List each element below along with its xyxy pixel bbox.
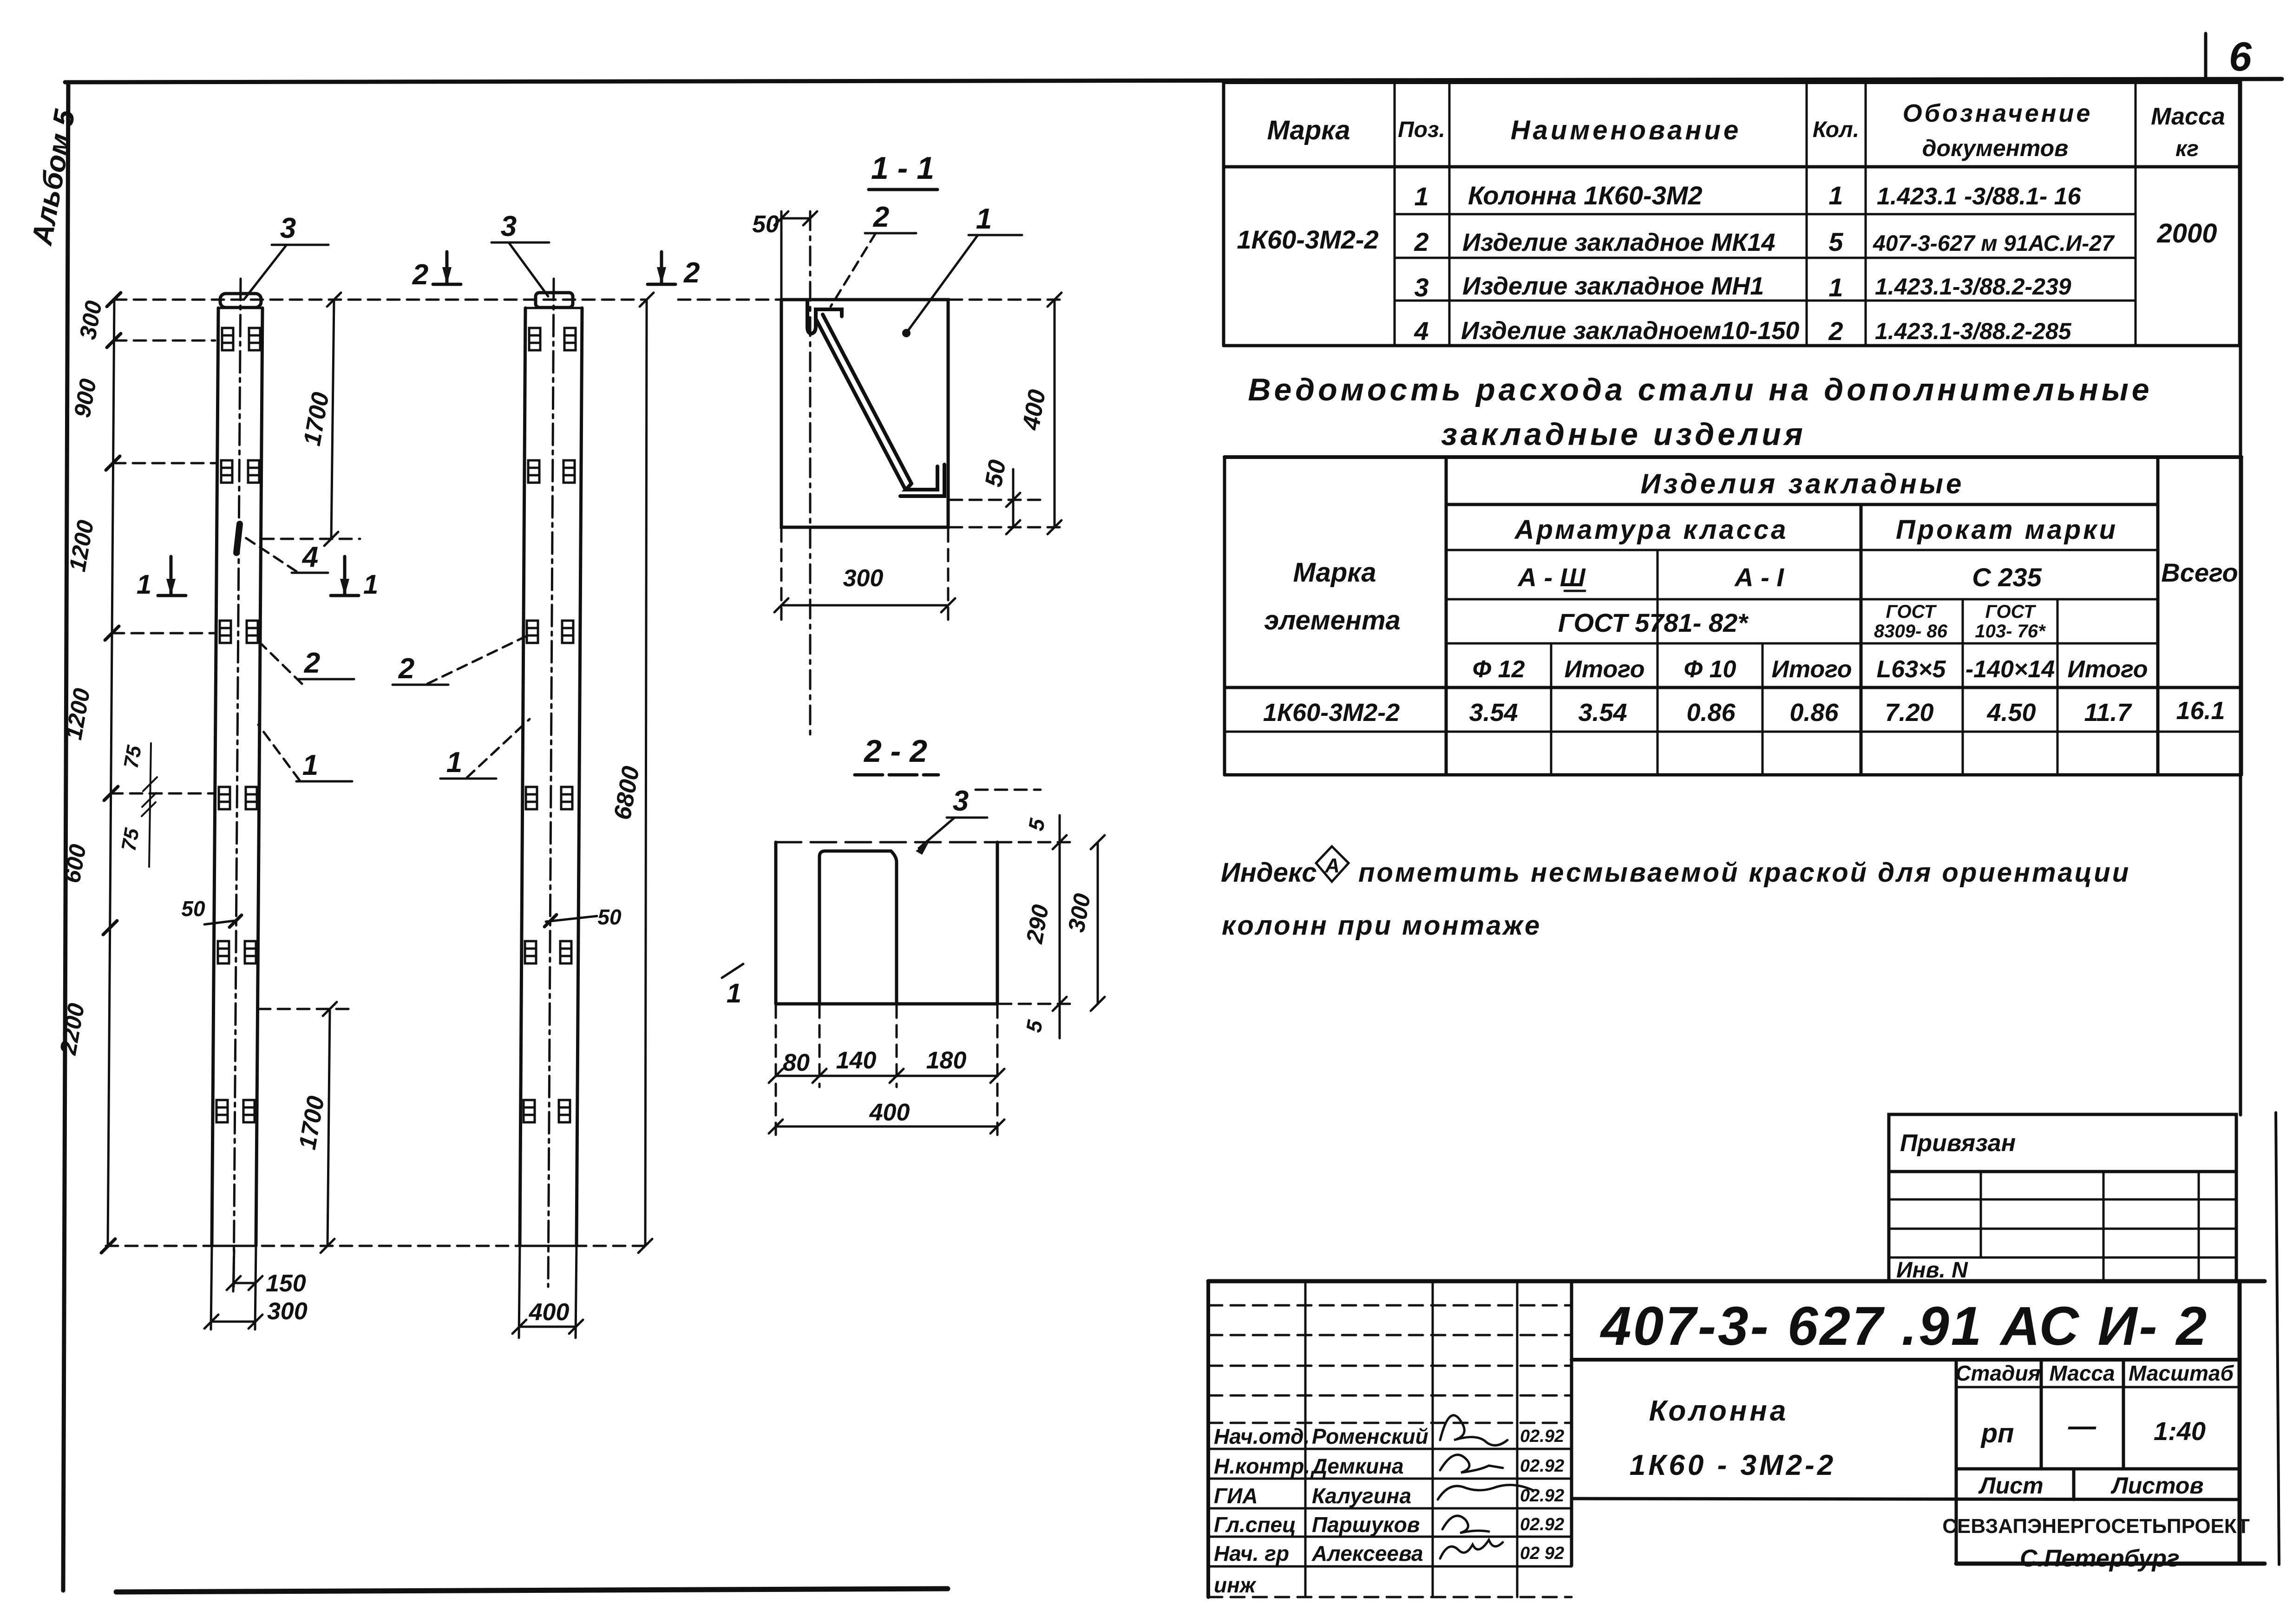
svg-text:11.7: 11.7 (2084, 699, 2132, 727)
svg-text:103- 76*: 103- 76* (1975, 621, 2046, 642)
svg-text:Ведомость расхода стали на: Ведомость расхода стали на дополнительны… (1248, 372, 2152, 407)
svg-text:ГИА: ГИА (1214, 1484, 1258, 1508)
DIM 1700 (upper, right of col1) (262, 293, 360, 546)
svg-text:1: 1 (976, 203, 992, 235)
svg-text:Арматура класса: Арматура класса (1514, 515, 1789, 545)
svg-text:Колонна 1К60-3М2: Колонна 1К60-3М2 (1468, 181, 1703, 210)
svg-text:5: 5 (1023, 816, 1049, 833)
svg-text:4: 4 (301, 541, 318, 573)
svg-text:Н.контр.: Н.контр. (1214, 1454, 1310, 1478)
COL2 BOTTOM DIM 400 (512, 1246, 583, 1338)
svg-text:Итого: Итого (1565, 656, 1645, 683)
SECTION 2-2 LABEL 1 (722, 964, 743, 1008)
svg-text:1.423.1-3/88.2-285: 1.423.1-3/88.2-285 (1875, 318, 2072, 344)
svg-text:3: 3 (953, 785, 969, 817)
svg-text:80: 80 (783, 1049, 810, 1076)
SECTION 1-1 EXT DASH LEFT (678, 299, 781, 301)
TITLE BLOCK NAME (1630, 1395, 1836, 1481)
svg-text:3: 3 (501, 210, 517, 242)
LABEL 2 (col1) (255, 637, 354, 684)
svg-text:Наименование: Наименование (1511, 115, 1741, 145)
svg-text:1.423.1 -3/88.1- 16: 1.423.1 -3/88.1- 16 (1877, 183, 2082, 210)
GROUND DASHED LINE (106, 1245, 647, 1247)
VEDOMOST TITLE (1248, 372, 2152, 452)
svg-text:140: 140 (836, 1047, 877, 1074)
DIM 50 (col1) (181, 897, 242, 927)
SECTION 2-2 BOTTOM DIMS 80/140/180/400 (769, 1006, 1004, 1140)
svg-text:Марка: Марка (1267, 115, 1350, 145)
COLUMN 1 TOP CAP (item 3) (220, 294, 261, 308)
svg-text:50: 50 (752, 211, 779, 238)
svg-text:02.92: 02.92 (1520, 1427, 1564, 1446)
svg-text:Поз.: Поз. (1398, 118, 1445, 142)
svg-text:1: 1 (446, 747, 462, 779)
svg-text:С 235: С 235 (1972, 563, 2042, 592)
COLUMN 2 EMBED MARKS (524, 328, 576, 1122)
TOP EXTENSION DASHED LINE (114, 299, 647, 301)
SECTION 1-1 DIM 50 TOP (752, 211, 817, 297)
svg-text:7.20: 7.20 (1885, 699, 1933, 727)
COLUMN 2 CENTERLINE (548, 279, 554, 1287)
svg-text:4: 4 (1414, 316, 1428, 346)
svg-text:300: 300 (1063, 891, 1095, 934)
COLUMN 1 CENTERLINE (234, 279, 241, 1287)
svg-text:02 92: 02 92 (1520, 1544, 1564, 1563)
svg-text:пометить несмываемой краской: пометить несмываемой краской для ориента… (1358, 858, 2130, 888)
SECTION 2-2 PLATE OUTLINE (776, 842, 997, 1004)
svg-text:1К60-3М2-2: 1К60-3М2-2 (1263, 699, 1400, 727)
DIM 75 SUB-CHAIN (117, 743, 157, 867)
svg-text:4.50: 4.50 (1986, 699, 2036, 727)
SECTION 2-2 TITLE (855, 733, 938, 775)
svg-text:1: 1 (727, 978, 741, 1008)
COLUMN 2 BODY (520, 308, 582, 1246)
svg-text:400: 400 (529, 1299, 570, 1326)
SECTION 1-1 DIM 300 BOTTOM (774, 530, 955, 620)
svg-text:Марка: Марка (1293, 557, 1376, 588)
svg-text:2: 2 (398, 653, 414, 685)
svg-text:5: 5 (1021, 1018, 1047, 1035)
SECTION 1-1 PLATE CENTER DASH (809, 211, 812, 739)
svg-text:1: 1 (1828, 273, 1843, 302)
SIGNATURE ROWS TEXT (1214, 1424, 1564, 1597)
svg-text:L63×5: L63×5 (1877, 656, 1946, 683)
svg-text:Паршуков: Паршуков (1312, 1513, 1420, 1537)
svg-text:Масса: Масса (2151, 103, 2225, 130)
svg-text:Масштаб: Масштаб (2129, 1361, 2234, 1385)
svg-text:2: 2 (1414, 227, 1428, 256)
LEFT DIMENSION CHAIN (55, 293, 121, 1253)
svg-text:2: 2 (683, 257, 700, 289)
svg-text:С.Петербург: С.Петербург (2020, 1545, 2180, 1572)
TABLE 1 TEXT (1237, 99, 2225, 346)
svg-text:Листов: Листов (2110, 1473, 2203, 1499)
LABEL 3 (col2) (491, 210, 549, 296)
svg-text:600: 600 (59, 842, 91, 885)
svg-text:Лист: Лист (1978, 1473, 2043, 1499)
ALBUM LABEL (26, 106, 81, 248)
svg-text:1К60 - 3М2-2: 1К60 - 3М2-2 (1630, 1449, 1836, 1481)
SECTION 1-1 DIM 50 LOWER RIGHT (950, 458, 1041, 534)
svg-text:-140×14: -140×14 (1965, 656, 2055, 683)
svg-text:1.423.1-3/88.2-239: 1.423.1-3/88.2-239 (1875, 274, 2071, 300)
svg-text:1: 1 (363, 570, 378, 600)
svg-text:инж: инж (1214, 1573, 1257, 1597)
COLUMN 1 EMBED MARKS (item 2 plates) (216, 328, 260, 1122)
CHAIN EXTENSION LINES (111, 341, 215, 793)
svg-text:6800: 6800 (609, 764, 645, 822)
svg-text:ГОСТ: ГОСТ (1886, 602, 1938, 622)
svg-text:Гл.спец: Гл.спец (1214, 1513, 1296, 1537)
SIGNATURE TABLE (1208, 1281, 1572, 1597)
svg-text:75: 75 (117, 826, 144, 853)
svg-text:1: 1 (1414, 182, 1428, 211)
svg-text:Стадия: Стадия (1955, 1361, 2040, 1385)
svg-text:300: 300 (843, 565, 884, 592)
svg-text:Итого: Итого (1772, 656, 1852, 683)
svg-text:1 - 1: 1 - 1 (871, 151, 934, 186)
SECTION 1-1 LABEL 1 (902, 203, 1022, 337)
SECTION 2-2 LABEL 3 (916, 785, 1041, 855)
SECTION MARK 2 (right of col2) (648, 252, 700, 289)
svg-text:407-3-627 м 91АС.И-27: 407-3-627 м 91АС.И-27 (1873, 231, 2115, 256)
svg-text:1: 1 (137, 570, 151, 600)
svg-text:1700: 1700 (294, 1094, 330, 1152)
SECTION 2-2 CHANNEL (item 3) (819, 851, 897, 1004)
svg-text:ГОСТ: ГОСТ (1985, 602, 2037, 622)
LABEL 1 (col2) (440, 719, 530, 779)
svg-text:1К60-3М2-2: 1К60-3М2-2 (1237, 225, 1378, 254)
svg-text:рп: рп (1980, 1418, 2014, 1448)
PAGE NUMBER 6 (2206, 33, 2252, 80)
svg-text:75: 75 (119, 744, 146, 770)
svg-text:407-3- 627 .91 АС И- 2: 407-3- 627 .91 АС И- 2 (1600, 1296, 2208, 1357)
svg-text:Обозначение: Обозначение (1903, 99, 2093, 127)
svg-text:3: 3 (280, 212, 296, 244)
svg-text:02.92: 02.92 (1520, 1456, 1564, 1476)
SMALL TABLE (Привязан / Инв.N) (1889, 1114, 2236, 1283)
TABLE 1 PARTS LIST GRID (1224, 82, 2240, 346)
DIM 1700 (lower, right of col1) (258, 1002, 353, 1253)
svg-text:Инв. N: Инв. N (1896, 1258, 1968, 1283)
svg-text:1: 1 (1828, 181, 1843, 210)
ITEM 4 MARK (black tick on centerline) (236, 524, 240, 553)
svg-text:закладные изделия: закладные изделия (1441, 417, 1806, 452)
svg-text:Нач. гр: Нач. гр (1214, 1541, 1289, 1565)
svg-text:Калугина: Калугина (1312, 1484, 1411, 1508)
svg-text:1200: 1200 (64, 518, 98, 573)
svg-text:3.54: 3.54 (1469, 699, 1518, 727)
TABLE 2 STEEL GRID (1225, 457, 2241, 775)
svg-text:1:40: 1:40 (2154, 1416, 2206, 1446)
svg-text:290: 290 (1021, 903, 1054, 946)
svg-text:0.86: 0.86 (1789, 699, 1839, 727)
svg-text:Изделие закладное МК14: Изделие закладное МК14 (1462, 229, 1775, 256)
SECTION MARK 2 (left of col2) (412, 252, 461, 291)
svg-text:16.1: 16.1 (2176, 697, 2225, 725)
svg-text:Изделие закладноем10-150: Изделие закладноем10-150 (1461, 317, 1799, 345)
NOTE DIAMOND A (1316, 846, 1349, 882)
LABEL 1 (col1) (258, 725, 352, 781)
svg-text:Масса: Масса (2049, 1361, 2115, 1385)
svg-text:3: 3 (1414, 273, 1428, 302)
svg-text:—: — (2068, 1410, 2096, 1441)
svg-text:Изделия закладные: Изделия закладные (1641, 468, 1965, 499)
svg-text:50: 50 (980, 458, 1011, 489)
DIM 6800 (609, 293, 654, 1253)
svg-text:300: 300 (267, 1298, 308, 1325)
svg-text:ГОСТ 5781- 82*: ГОСТ 5781- 82* (1558, 608, 1749, 637)
TABLE 2 TEXT (1263, 468, 2238, 727)
SECTION 1-1 EMBED PLATE (item 2, Z-brace) (807, 301, 944, 496)
svg-text:Изделие закладное МН1: Изделие закладное МН1 (1462, 272, 1764, 300)
svg-text:300: 300 (74, 299, 107, 341)
svg-text:5: 5 (1828, 227, 1843, 256)
SECTION 1-1 TITLE (869, 151, 937, 190)
SECTION 2-2 RIGHT DIM 300 (1063, 835, 1105, 1011)
svg-text:0.86: 0.86 (1686, 699, 1736, 727)
svg-text:6: 6 (2229, 33, 2252, 79)
svg-text:Колонна: Колонна (1649, 1395, 1789, 1427)
LABEL 2 (col2) (393, 635, 528, 685)
svg-text:Привязан: Привязан (1900, 1130, 2016, 1157)
svg-text:СЕВЗАПЭНЕРГОСЕТЬПРОЕКТ: СЕВЗАПЭНЕРГОСЕТЬПРОЕКТ (1942, 1515, 2250, 1538)
svg-text:Всего: Всего (2161, 558, 2238, 587)
svg-text:Индекс: Индекс (1221, 858, 1317, 888)
svg-text:2 - 2: 2 - 2 (863, 733, 927, 769)
SIGNATURE SQUIGGLES (1438, 1415, 1533, 1559)
svg-text:Итого: Итого (2068, 656, 2148, 683)
svg-text:Прокат марки: Прокат марки (1896, 515, 2118, 545)
svg-text:Альбом 5: Альбом 5 (26, 106, 81, 248)
svg-text:2000: 2000 (2156, 218, 2217, 249)
svg-text:Кол.: Кол. (1813, 118, 1859, 142)
svg-text:150: 150 (266, 1270, 306, 1297)
svg-text:А - I: А - I (1734, 563, 1784, 592)
svg-text:02.92: 02.92 (1520, 1515, 1564, 1534)
svg-text:А - Ш: А - Ш (1517, 563, 1585, 592)
svg-text:2: 2 (412, 259, 428, 291)
COL1 BOTTOM DIMS 150 / 300 (204, 1246, 308, 1329)
SECTION 1-1 CONCRETE OUTLINE (781, 300, 948, 527)
svg-text:50: 50 (597, 905, 622, 929)
svg-text:8309- 86: 8309- 86 (1874, 621, 1948, 642)
SECTION 1-1 DIM 400 (950, 293, 1066, 534)
COLUMN 2 TOP CAP (item 3) (536, 293, 573, 308)
svg-text:2: 2 (873, 201, 889, 233)
svg-text:Нач.отд.: Нач.отд. (1214, 1424, 1310, 1448)
svg-text:элемента: элемента (1264, 605, 1401, 635)
svg-text:3.54: 3.54 (1578, 699, 1627, 727)
svg-text:1700: 1700 (299, 390, 334, 448)
svg-text:Роменский: Роменский (1312, 1424, 1428, 1448)
svg-text:180: 180 (926, 1047, 967, 1074)
svg-text:документов: документов (1922, 135, 2069, 161)
svg-text:2: 2 (304, 647, 320, 679)
LABEL 4 (242, 535, 328, 573)
LABEL 3 (col1) (244, 212, 328, 300)
svg-text:кг: кг (2175, 137, 2199, 161)
svg-text:400: 400 (869, 1099, 910, 1126)
DIM 50 (col2) (544, 905, 622, 929)
SECTION MARK 1 (left) (137, 557, 186, 600)
svg-text:900: 900 (69, 377, 101, 419)
svg-text:Ф 10: Ф 10 (1684, 656, 1736, 683)
svg-text:Ф 12: Ф 12 (1473, 656, 1525, 683)
NOTE TEXT (1221, 858, 2130, 941)
SECTION 1-1 LABEL 2 (831, 201, 916, 307)
svg-text:колонн при монтаже: колонн при монтаже (1222, 910, 1541, 941)
svg-text:Алексеева: Алексеева (1311, 1541, 1423, 1565)
SECTION MARK 1 (right) (331, 557, 378, 600)
TITLE BLOCK GRID (1208, 1281, 2265, 1597)
svg-text:50: 50 (181, 897, 205, 921)
svg-text:400: 400 (1017, 387, 1051, 432)
COLUMN 1 BODY (212, 308, 262, 1246)
SECTION 2-2 RIGHT DIMS 5/290/5 (999, 815, 1073, 1038)
TITLE BLOCK STAGE CELLS (1942, 1361, 2250, 1572)
svg-text:А: А (1324, 854, 1340, 877)
svg-text:2: 2 (1828, 316, 1843, 346)
svg-text:1: 1 (302, 749, 318, 781)
svg-text:Демкина: Демкина (1310, 1454, 1404, 1478)
svg-text:2200: 2200 (55, 1001, 90, 1057)
